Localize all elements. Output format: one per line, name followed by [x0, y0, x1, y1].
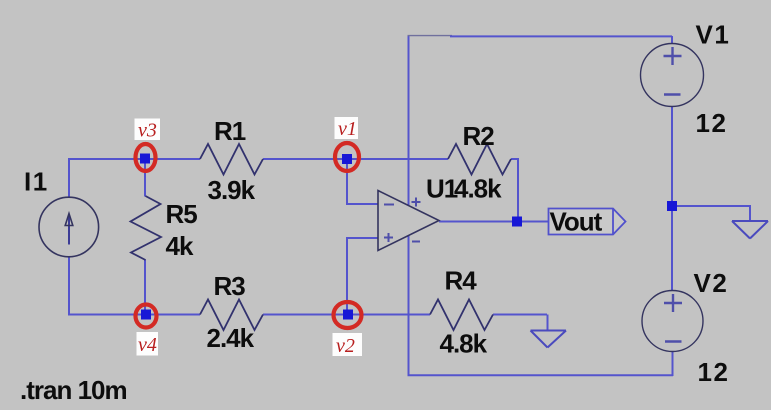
wire: op-amp top power pin	[408, 35, 410, 205]
wire: R4 ground vertical stub	[547, 315, 549, 331]
svg-text:R5: R5	[166, 199, 198, 229]
wire: V2 bottom lead	[672, 348, 674, 376]
wire: v3 to R5 top lead	[144, 159, 146, 197]
current source I1	[24, 167, 99, 257]
wire: top row middle segment (R1 to R2 through node v1)	[263, 158, 448, 160]
node: right rail junction	[667, 201, 677, 211]
wire: top supply rail	[408, 35, 453, 37]
resistor R1	[200, 116, 263, 205]
wire: bottom row middle segment (R3 to R4 through node v2)	[263, 314, 430, 316]
resistor R3	[200, 271, 263, 353]
wire: v2 rise to non-inverting input	[347, 238, 381, 315]
svg-text:R1: R1	[214, 116, 246, 146]
node v1	[335, 117, 360, 171]
svg-text:R3: R3	[214, 271, 246, 301]
svg-text:v4: v4	[138, 334, 157, 356]
svg-text:Vout: Vout	[550, 207, 603, 237]
resistor R2	[448, 121, 511, 204]
svg-text:v3: v3	[138, 120, 157, 142]
svg-text:V2: V2	[694, 268, 729, 298]
svg-text:3.9k: 3.9k	[208, 175, 256, 205]
wire: V1 top lead	[671, 36, 673, 48]
resistor R4	[430, 266, 493, 359]
wire: top row left segment (I1 top to R1)	[68, 158, 200, 160]
svg-text:I1: I1	[24, 167, 49, 197]
wire: v1 drop to inverting input	[347, 159, 381, 204]
voltage source V2	[642, 268, 729, 387]
ground (right rail)	[732, 221, 768, 239]
wire: bottom supply rail	[408, 374, 674, 376]
wire: bottom row left segment (I1 bottom to R3)	[68, 314, 200, 316]
svg-text:R4: R4	[445, 266, 478, 296]
wire: R2 right drop to output node	[517, 158, 519, 222]
wire: op-amp bottom power pin	[408, 235, 410, 375]
node: output junction	[512, 217, 522, 227]
op-amp U1	[378, 174, 458, 251]
svg-text:U1: U1	[426, 174, 458, 204]
resistor R5	[131, 196, 198, 261]
svg-text:v1: v1	[338, 118, 357, 140]
output port Vout	[549, 207, 626, 237]
node v4	[136, 305, 159, 357]
wire: V1 bottom to V2 top (right rail)	[671, 103, 673, 295]
svg-text:12: 12	[698, 357, 730, 387]
svg-text:v2: v2	[336, 335, 355, 357]
svg-text:V1: V1	[696, 20, 731, 50]
wire: R4 right lead to ground corner	[493, 314, 547, 316]
svg-text:.tran 10m: .tran 10m	[20, 375, 127, 405]
svg-text:R2: R2	[463, 121, 495, 151]
wire: R2 right lead horizontal	[511, 158, 518, 160]
wire: right node to ground	[672, 206, 750, 221]
wire: left rail vertical (I1 branch)	[68, 159, 70, 315]
wire: R5 bottom lead to v4	[144, 260, 146, 315]
node v2	[333, 302, 363, 357]
svg-text:12: 12	[696, 108, 728, 138]
node v3	[135, 119, 161, 172]
wire: op-amp output to Vout flag	[439, 221, 549, 223]
svg-text:4.8k: 4.8k	[454, 174, 502, 204]
voltage source V1	[641, 20, 731, 139]
svg-text:4k: 4k	[166, 231, 194, 261]
svg-text:2.4k: 2.4k	[207, 323, 255, 353]
svg-text:4.8k: 4.8k	[440, 329, 488, 359]
ground (R4)	[531, 331, 567, 348]
